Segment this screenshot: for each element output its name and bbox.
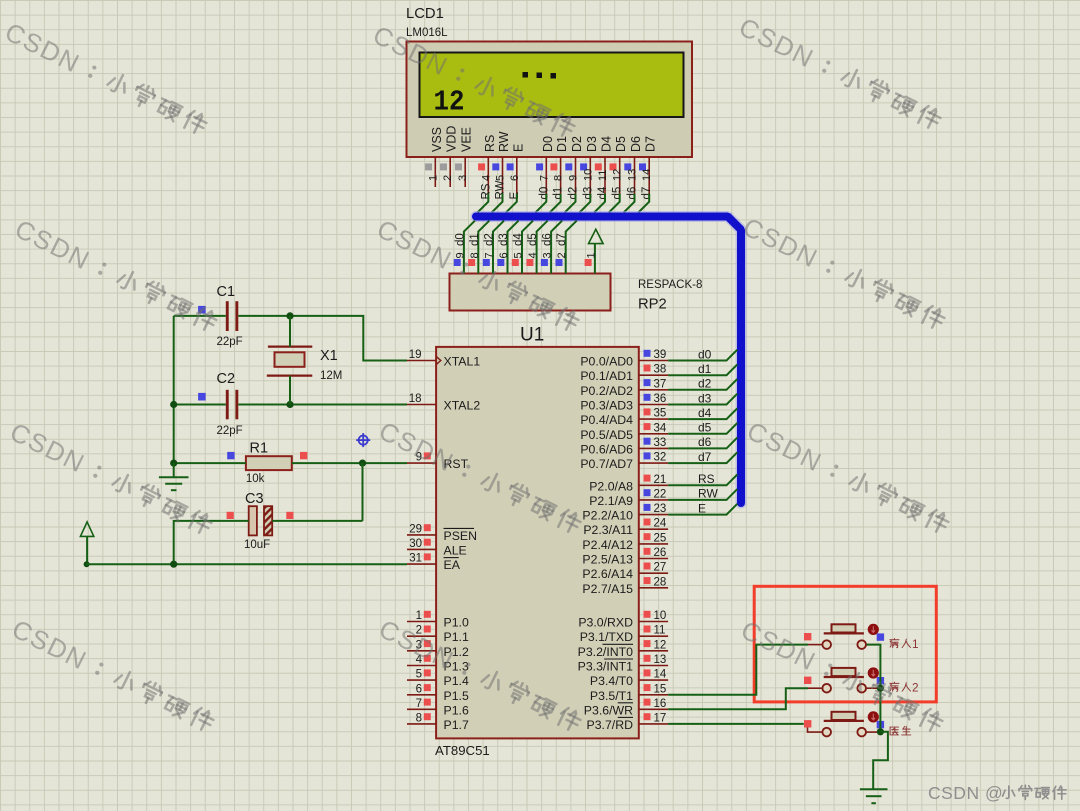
wire U1 pin 33 to bus (net d6) xyxy=(668,438,737,449)
wire C2 left xyxy=(174,404,226,406)
U1 pin 22 state square xyxy=(644,489,651,496)
ground symbol (left) xyxy=(159,463,189,490)
svg-text:P0.1/AD1: P0.1/AD1 xyxy=(580,369,633,383)
svg-text:P2.5/A13: P2.5/A13 xyxy=(582,553,633,567)
capacitor C1 xyxy=(226,301,238,331)
U1 pin 25 state square xyxy=(644,533,651,540)
LCD pin 7 state square xyxy=(536,163,543,170)
svg-text:23: 23 xyxy=(654,503,667,515)
LCD pin 9 state square xyxy=(565,163,572,170)
U1 pin 29 (PSEN) line xyxy=(407,534,436,536)
svg-text:d1: d1 xyxy=(553,187,565,200)
svg-text:8: 8 xyxy=(416,712,422,724)
U1 pin 28 (P2.7/A15) line xyxy=(639,587,668,589)
U1 pin 8 state square xyxy=(424,713,431,720)
R1 state square right xyxy=(300,452,307,459)
wire buttons common (right vertical) xyxy=(867,645,881,732)
wire RP2 pin 5 to bus xyxy=(522,221,533,274)
power symbol (EA rail) xyxy=(80,522,93,537)
RP2 pin 2 state square xyxy=(556,259,563,266)
U1 pin 19 (XTAL1) line xyxy=(407,360,436,362)
watermark xyxy=(5,416,215,540)
svg-text:CSDN: CSDN xyxy=(5,416,90,478)
svg-text:P2.7/A15: P2.7/A15 xyxy=(582,582,633,596)
watermark xyxy=(372,213,582,337)
U1 pin 10 (P3.0/RXD) line xyxy=(639,621,668,623)
U1 pin 7 (P1.6) line xyxy=(407,708,436,710)
watermark CSDN @小常硬件 xyxy=(928,783,1066,803)
svg-text:d5: d5 xyxy=(527,233,539,246)
wire U1 pin 36 to bus (net d3) xyxy=(668,394,737,405)
button 医生 toggle (red actuator circle) xyxy=(868,711,879,722)
svg-text:12: 12 xyxy=(612,169,624,181)
node (rail corner) xyxy=(84,561,90,567)
U1 pin 17 (P3.7/RD) line xyxy=(639,723,668,725)
svg-text:U1: U1 xyxy=(520,325,544,346)
svg-text:VSS: VSS xyxy=(430,127,444,152)
watermark xyxy=(738,211,948,335)
LCD pin 3 line xyxy=(464,157,466,187)
svg-text:d2: d2 xyxy=(484,233,496,246)
svg-text:27: 27 xyxy=(654,562,667,574)
U1 pin 11 (P3.1/TXD) line xyxy=(639,635,668,637)
svg-text:D1: D1 xyxy=(555,136,569,152)
svg-text:P0.7/AD7: P0.7/AD7 xyxy=(580,457,633,471)
U1 pin 14 (P3.4/T0) line xyxy=(639,679,668,681)
svg-text:5: 5 xyxy=(513,252,525,258)
U1 pin 39 state square xyxy=(644,350,651,357)
wire RST junction down to C3 xyxy=(362,463,364,521)
svg-text:1: 1 xyxy=(912,637,919,651)
wire RP2 pin 2 to bus xyxy=(566,221,577,274)
U1 pin 6 (P1.5) line xyxy=(407,694,436,696)
svg-text:P0.6/AD6: P0.6/AD6 xyxy=(580,442,633,456)
svg-text:d0: d0 xyxy=(454,233,466,246)
svg-text:25: 25 xyxy=(654,532,667,544)
svg-text:P1.5: P1.5 xyxy=(444,689,469,703)
U1 pin 6 state square xyxy=(424,684,431,691)
svg-text:CSDN: CSDN xyxy=(10,213,95,275)
U1 XTAL1 clock chevron xyxy=(437,357,441,364)
svg-text:8: 8 xyxy=(553,175,565,181)
svg-text:RS: RS xyxy=(480,183,492,199)
svg-text:12: 12 xyxy=(434,86,465,119)
watermark xyxy=(368,19,578,143)
svg-text:10uF: 10uF xyxy=(244,539,270,551)
U1 pin 3 (P1.2) line xyxy=(407,650,436,652)
svg-text:ALE: ALE xyxy=(444,543,467,557)
wire C1 right to XTAL1 xyxy=(238,316,407,361)
U1 pin 5 state square xyxy=(424,669,431,676)
svg-text:d7: d7 xyxy=(641,187,653,200)
LCD pin 4 line xyxy=(487,157,489,194)
wire U1 pin 34 to bus (net d5) xyxy=(668,423,737,434)
svg-text:P2.2/A10: P2.2/A10 xyxy=(582,509,633,523)
U1 pin 21 (P2.0/A8) line xyxy=(639,484,668,486)
U1 pin 31 state square xyxy=(424,553,431,560)
wire crystal bottom lead xyxy=(289,376,291,405)
wire RP2 pin 9 to bus xyxy=(464,221,475,274)
svg-text:P3.3/INT1: P3.3/INT1 xyxy=(578,660,634,674)
U1 pin 17 state square xyxy=(644,713,651,720)
wire LCD pin 7 to bus xyxy=(536,194,547,213)
svg-text:32: 32 xyxy=(654,452,667,464)
U1 pin 30 state square xyxy=(424,539,431,546)
svg-text:28: 28 xyxy=(654,576,667,588)
button 病人1 toggle (red actuator circle) xyxy=(868,624,879,635)
wire RP2 pin 4 to bus xyxy=(537,221,548,274)
LCD pin 2 line xyxy=(449,157,451,187)
button 病人2 toggle (red actuator circle) xyxy=(868,667,879,678)
U1 pin 13 (P3.3/INT1) line xyxy=(639,665,668,667)
wire LCD pin 13 to bus xyxy=(624,194,635,213)
junction node (crystal bottom) xyxy=(286,401,293,408)
svg-text:2: 2 xyxy=(912,681,919,695)
wire C2 right to XTAL2 xyxy=(238,404,407,406)
svg-text:P2.4/A12: P2.4/A12 xyxy=(582,538,633,552)
svg-text:d5: d5 xyxy=(612,187,624,200)
label 病人1 xyxy=(890,637,919,651)
svg-text:P0.4/AD4: P0.4/AD4 xyxy=(580,413,633,427)
svg-text:11: 11 xyxy=(597,170,609,181)
LCD pin 14 line xyxy=(648,157,650,194)
wire U1 pin 38 to bus (net d1) xyxy=(668,364,737,375)
svg-text:18: 18 xyxy=(409,393,422,405)
svg-text:8: 8 xyxy=(469,252,481,258)
svg-text:E: E xyxy=(511,144,525,152)
LCD pin 5 line xyxy=(502,157,504,194)
svg-text:11: 11 xyxy=(654,625,666,637)
svg-text:AT89C51: AT89C51 xyxy=(435,743,490,758)
push button 医生 xyxy=(808,712,881,737)
button 病人1 state square (red) xyxy=(804,633,811,640)
svg-text:P3.1/TXD: P3.1/TXD xyxy=(580,630,633,644)
svg-text:5: 5 xyxy=(416,669,422,681)
svg-text:LCD1: LCD1 xyxy=(406,6,444,22)
svg-text:P3.2/INT0: P3.2/INT0 xyxy=(578,645,634,659)
svg-text:CSDN: CSDN xyxy=(738,211,823,273)
U1 pin 33 state square xyxy=(644,438,651,445)
U1 pin 38 state square xyxy=(644,365,651,372)
svg-text:36: 36 xyxy=(654,393,667,405)
U1 pin 15 (P3.5/T1) line xyxy=(639,694,668,696)
RP2 pin 1 line xyxy=(594,244,596,274)
button 病人1 state square (blue) xyxy=(877,633,884,640)
svg-text:XTAL2: XTAL2 xyxy=(444,399,481,413)
U1 pin 16 state square xyxy=(644,699,651,706)
svg-text:d3: d3 xyxy=(582,187,594,200)
svg-text:22pF: 22pF xyxy=(217,425,243,437)
RP2 pin 8 state square xyxy=(468,259,475,266)
U1 pin 11 state square xyxy=(644,626,651,633)
U1 pin 12 state square xyxy=(644,640,651,647)
C3 state square right xyxy=(286,512,293,519)
svg-text:d0: d0 xyxy=(538,187,550,200)
svg-text:d2: d2 xyxy=(568,187,580,200)
svg-text:24: 24 xyxy=(654,518,667,530)
svg-text:C3: C3 xyxy=(245,491,264,507)
U1 pin 34 state square xyxy=(644,423,651,430)
U1 pin 16 (P3.6/WR) line xyxy=(639,708,668,710)
wire LCD pin 14 to bus xyxy=(638,194,649,213)
svg-text:3: 3 xyxy=(457,175,469,181)
U1 pin 22 (P2.1/A9) line xyxy=(639,499,668,501)
svg-text:P3.6/WR: P3.6/WR xyxy=(584,703,633,717)
U1 pin 26 (P2.5/A13) line xyxy=(639,558,668,560)
svg-text:35: 35 xyxy=(654,408,667,420)
svg-text:d4: d4 xyxy=(597,186,609,199)
MCU U1 body xyxy=(436,347,639,739)
svg-text:P2.3/A11: P2.3/A11 xyxy=(583,523,633,537)
svg-text:d5: d5 xyxy=(698,421,712,435)
U1 pin 1 (P1.0) line xyxy=(407,621,436,623)
svg-text:d1: d1 xyxy=(698,362,712,376)
svg-text:CSDN: CSDN xyxy=(736,614,821,676)
svg-text:39: 39 xyxy=(654,349,667,361)
svg-text:C1: C1 xyxy=(217,284,236,300)
svg-text:D7: D7 xyxy=(644,136,658,152)
junction node (RST / C3) xyxy=(359,460,366,467)
wire LCD pin 4 to bus xyxy=(478,194,489,213)
svg-text:2: 2 xyxy=(442,175,454,181)
wire power to EA rail xyxy=(86,536,88,564)
LCD pin 12 state square xyxy=(610,163,617,170)
label 医生 xyxy=(890,726,911,735)
svg-text:38: 38 xyxy=(654,364,667,376)
U1 pin 2 state square xyxy=(424,626,431,633)
wire common to ground xyxy=(873,732,888,789)
LCD dots xyxy=(523,72,557,79)
wire U1 pin 39 to bus (net d0) xyxy=(668,350,737,361)
svg-text:P3.4/T0: P3.4/T0 xyxy=(590,674,633,688)
wire LCD pin 12 to bus xyxy=(609,194,620,213)
svg-text:4: 4 xyxy=(480,175,492,181)
RP2 pin 3 state square xyxy=(541,259,548,266)
LCD pin 3 state square xyxy=(455,163,462,170)
wire U1 P3.5/T1 to button1 xyxy=(668,645,808,695)
LCD pin 10 state square xyxy=(580,163,587,170)
RP2 pin 9 state square xyxy=(454,259,461,266)
C1 state square xyxy=(198,306,206,314)
svg-text:6: 6 xyxy=(509,175,521,181)
LCD pin 11 line xyxy=(604,157,606,194)
U1 pin 26 state square xyxy=(644,548,651,555)
U1 pin 23 state square xyxy=(644,504,651,511)
junction node (button2 right) xyxy=(877,685,884,692)
svg-text:VEE: VEE xyxy=(460,127,474,152)
svg-text:31: 31 xyxy=(409,553,422,565)
watermark xyxy=(10,213,220,337)
wire LCD pin 9 to bus xyxy=(565,194,576,213)
U1 pin 25 (P2.4/A12) line xyxy=(639,543,668,545)
U1 pin 2 (P1.1) line xyxy=(407,635,436,637)
crystal X1 xyxy=(267,347,313,376)
wire U1 P3.7/RD to button3 xyxy=(668,723,804,725)
U1 pin 12 (P3.2/INT0) line xyxy=(639,650,668,652)
C2 state square xyxy=(198,393,206,401)
svg-text:P1.0: P1.0 xyxy=(444,616,469,630)
svg-text:d3: d3 xyxy=(498,233,510,246)
U1 pin 33 (P0.6/AD6) line xyxy=(639,447,668,449)
svg-text:P0.5/AD5: P0.5/AD5 xyxy=(580,428,633,442)
watermark xyxy=(734,11,944,135)
svg-text:P3.0/RXD: P3.0/RXD xyxy=(578,616,633,630)
wire U1 P3.6/WR to button2 xyxy=(668,688,808,709)
U1 pin 15 state square xyxy=(644,684,651,691)
svg-text:3: 3 xyxy=(542,252,554,258)
button 病人2 state square (blue) xyxy=(877,677,884,684)
push button 病人1 xyxy=(808,624,880,649)
svg-text:37: 37 xyxy=(654,378,667,390)
U1 pin 34 (P0.5/AD5) line xyxy=(639,433,668,435)
svg-text:EA: EA xyxy=(444,558,461,572)
RP2 pin 4 state square xyxy=(526,259,533,266)
U1 pin 39 (P0.0/AD0) line xyxy=(639,360,668,362)
U1 pin 32 state square xyxy=(644,452,651,459)
U1 pin 37 (P0.2/AD2) line xyxy=(639,389,668,391)
wire RP2 pin 8 to bus xyxy=(478,221,489,274)
U1 pin 10 state square xyxy=(644,611,651,618)
svg-text:P0.0/AD0: P0.0/AD0 xyxy=(580,355,633,369)
U1 pin 24 (P2.3/A11) line xyxy=(639,528,668,530)
svg-text:P0.3/AD3: P0.3/AD3 xyxy=(580,399,633,413)
wire R1 left xyxy=(174,462,246,464)
LCD pin 14 state square xyxy=(639,163,646,170)
svg-text:RW: RW xyxy=(495,180,507,199)
LCD pin 8 state square xyxy=(550,163,557,170)
left rail wire xyxy=(173,316,175,463)
U1 pin 27 (P2.6/A14) line xyxy=(639,572,668,574)
U1 pin 1 state square xyxy=(424,611,431,618)
svg-text:1: 1 xyxy=(585,252,597,258)
LCD pin 9 line xyxy=(575,157,577,194)
button 病人2 state square (red) xyxy=(804,677,811,684)
svg-text:9: 9 xyxy=(568,175,580,181)
wire C3 right xyxy=(272,520,362,522)
svg-text:P1.7: P1.7 xyxy=(444,718,469,732)
U1 pin 5 (P1.4) line xyxy=(407,679,436,681)
svg-text:17: 17 xyxy=(654,712,667,724)
wire LCD pin 11 to bus xyxy=(594,194,605,213)
svg-text:12: 12 xyxy=(654,639,667,651)
U1 pin 9 state square xyxy=(424,452,431,459)
svg-text:d6: d6 xyxy=(542,233,554,246)
U1 pin 27 state square xyxy=(644,563,651,570)
U1 pin 29 state square xyxy=(424,524,431,531)
svg-text:P1.6: P1.6 xyxy=(444,703,469,717)
wire LCD pin 5 to bus xyxy=(492,194,503,213)
wire U1 pin 21 to bus (net RS) xyxy=(668,475,737,486)
wire RP2 pin 3 to bus xyxy=(551,221,562,274)
svg-text:2: 2 xyxy=(556,252,568,258)
svg-text:P2.1/A9: P2.1/A9 xyxy=(589,494,633,508)
svg-text:RP2: RP2 xyxy=(638,297,667,313)
svg-text:d7: d7 xyxy=(698,450,712,464)
svg-text:4: 4 xyxy=(527,252,539,258)
svg-text:XTAL1: XTAL1 xyxy=(444,355,481,369)
U1 pin 24 state square xyxy=(644,519,651,526)
U1 pin 23 (P2.2/A10) line xyxy=(639,514,668,516)
junction node (C3 left / EA rail) xyxy=(170,561,177,568)
svg-text:10: 10 xyxy=(582,169,594,181)
selection box (red) xyxy=(754,586,936,702)
LCD pin 2 state square xyxy=(440,163,447,170)
wire U1 pin 37 to bus (net d2) xyxy=(668,379,737,390)
label 病人2 xyxy=(890,681,919,695)
svg-text:12M: 12M xyxy=(320,370,342,382)
LCD pin 7 line xyxy=(545,157,547,194)
U1 pin 21 state square xyxy=(644,475,651,482)
svg-text:d4: d4 xyxy=(513,233,525,246)
RP2 pin 6 state square xyxy=(497,259,504,266)
svg-text:CSDN: CSDN xyxy=(7,613,92,675)
svg-text:CSDN: CSDN xyxy=(372,213,457,275)
LCD pin 8 line xyxy=(560,157,562,194)
resistor pack RP2 body xyxy=(450,274,611,311)
U1 pin 13 state square xyxy=(644,655,651,662)
capacitor C2 xyxy=(226,390,238,420)
LCD pin 5 state square xyxy=(492,163,499,170)
svg-text:14: 14 xyxy=(641,169,653,181)
svg-text:33: 33 xyxy=(654,437,667,449)
LCD pin 4 state square xyxy=(478,163,485,170)
LCD pin 13 state square xyxy=(624,163,631,170)
push button 病人2 xyxy=(808,668,880,693)
svg-text:RS: RS xyxy=(698,472,715,486)
svg-text:26: 26 xyxy=(654,547,667,559)
junction node (left rail / R1 / ground) xyxy=(170,460,177,467)
LCD pin 11 state square xyxy=(595,163,602,170)
svg-text:14: 14 xyxy=(654,669,667,681)
RP2 pin 7 state square xyxy=(483,259,490,266)
LCD pin 1 state square xyxy=(425,163,432,170)
watermark xyxy=(374,613,584,737)
RP2 pin 5 state square xyxy=(512,259,519,266)
wire C3 left xyxy=(174,521,249,564)
U1 pin 3 state square xyxy=(424,640,431,647)
svg-text:30: 30 xyxy=(409,538,422,550)
svg-text:d4: d4 xyxy=(698,406,712,420)
svg-text:E: E xyxy=(698,501,706,515)
watermark xyxy=(736,614,946,738)
svg-text:5: 5 xyxy=(495,175,507,181)
svg-text:D6: D6 xyxy=(629,136,643,152)
svg-text:d0: d0 xyxy=(698,347,712,361)
RP2 pin 1 state square xyxy=(585,259,592,266)
svg-text:21: 21 xyxy=(654,474,667,486)
U1 pin 28 state square xyxy=(644,577,651,584)
svg-text:1: 1 xyxy=(427,175,439,181)
LCD screen xyxy=(420,53,684,118)
svg-text:d6: d6 xyxy=(627,187,639,200)
watermark xyxy=(0,16,210,140)
origin marker (blue crosshair) xyxy=(356,433,370,447)
U1 pin 30 (ALE) line xyxy=(407,548,436,550)
svg-text:CSDN: CSDN xyxy=(0,16,85,78)
svg-text:C2: C2 xyxy=(217,371,236,387)
svg-text:9: 9 xyxy=(454,252,466,258)
power symbol (RP2 pin 1) xyxy=(589,229,604,243)
svg-text:d1: d1 xyxy=(469,233,481,246)
U1 pin 32 (P0.7/AD7) line xyxy=(639,462,668,464)
C3 state square left xyxy=(227,512,234,519)
svg-text:P3.7/RD: P3.7/RD xyxy=(587,718,634,732)
svg-text:22pF: 22pF xyxy=(217,336,243,348)
svg-text:RW: RW xyxy=(698,487,718,501)
svg-text:D3: D3 xyxy=(585,136,599,152)
R1 state square left xyxy=(227,452,234,459)
U1 pin 38 (P0.1/AD1) line xyxy=(639,374,668,376)
